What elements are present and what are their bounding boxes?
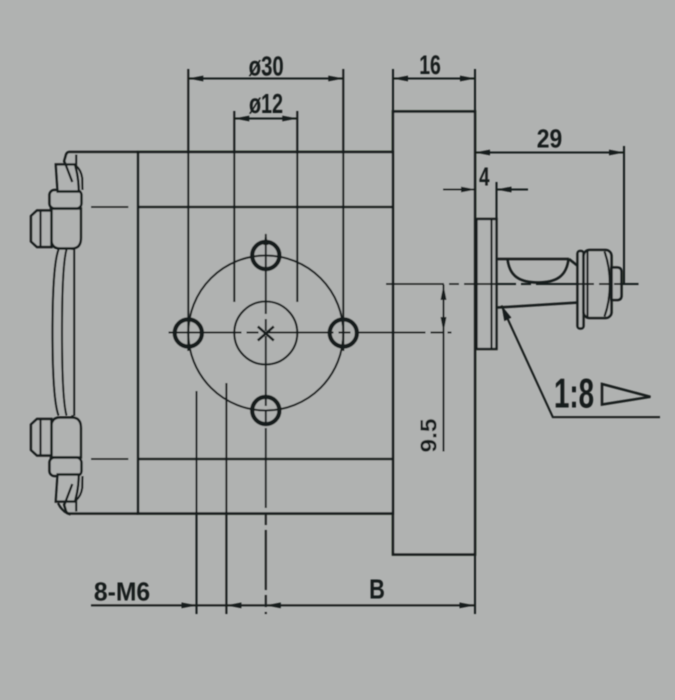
svg-text:1:8: 1:8 xyxy=(554,370,594,417)
svg-text:B: B xyxy=(369,574,385,605)
svg-text:8-M6: 8-M6 xyxy=(94,578,150,607)
svg-text:9.5: 9.5 xyxy=(417,419,442,453)
svg-text:4: 4 xyxy=(479,161,490,191)
svg-text:29: 29 xyxy=(537,125,562,154)
svg-text:ø30: ø30 xyxy=(249,52,284,83)
svg-text:ø12: ø12 xyxy=(249,89,283,120)
svg-text:16: 16 xyxy=(419,50,441,80)
